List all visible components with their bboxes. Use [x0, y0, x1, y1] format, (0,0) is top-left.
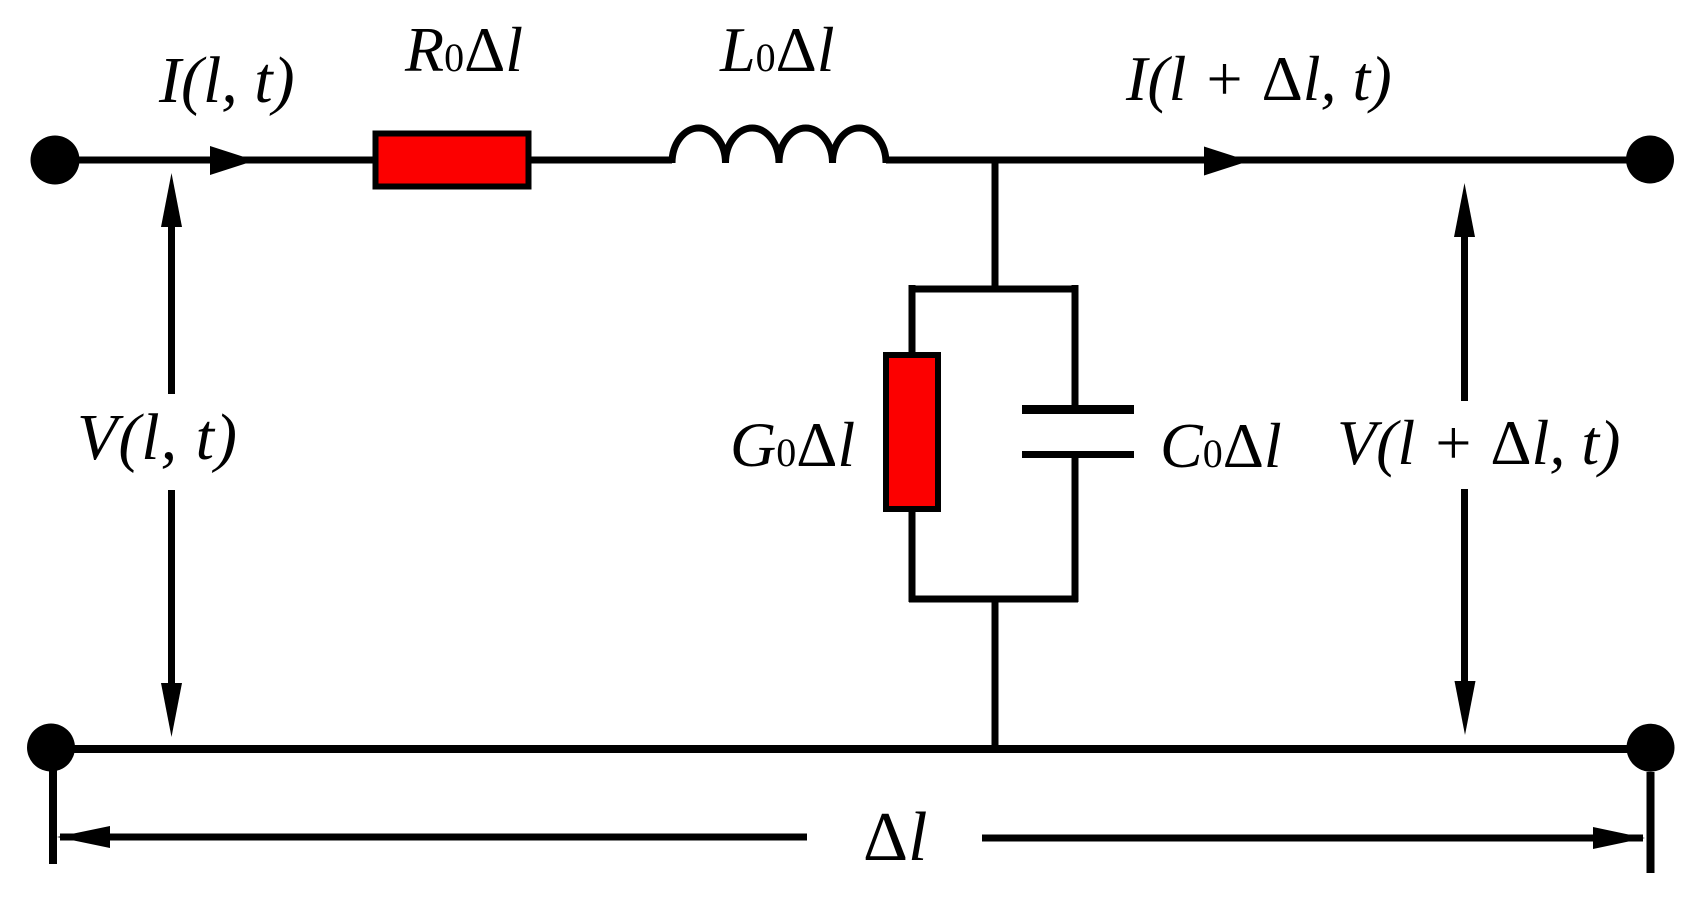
svg-text:I(l, t): I(l, t)	[158, 44, 295, 117]
svg-text:V(l, t): V(l, t)	[77, 401, 238, 474]
svg-text:V(l + Δl, t): V(l + Δl, t)	[1337, 407, 1620, 478]
svg-text:Δl: Δl	[863, 799, 927, 876]
svg-text:L0Δl: L0Δl	[719, 14, 835, 85]
svg-text:I(l + Δl, t): I(l + Δl, t)	[1125, 43, 1392, 114]
svg-text:R0Δl: R0Δl	[404, 14, 523, 85]
